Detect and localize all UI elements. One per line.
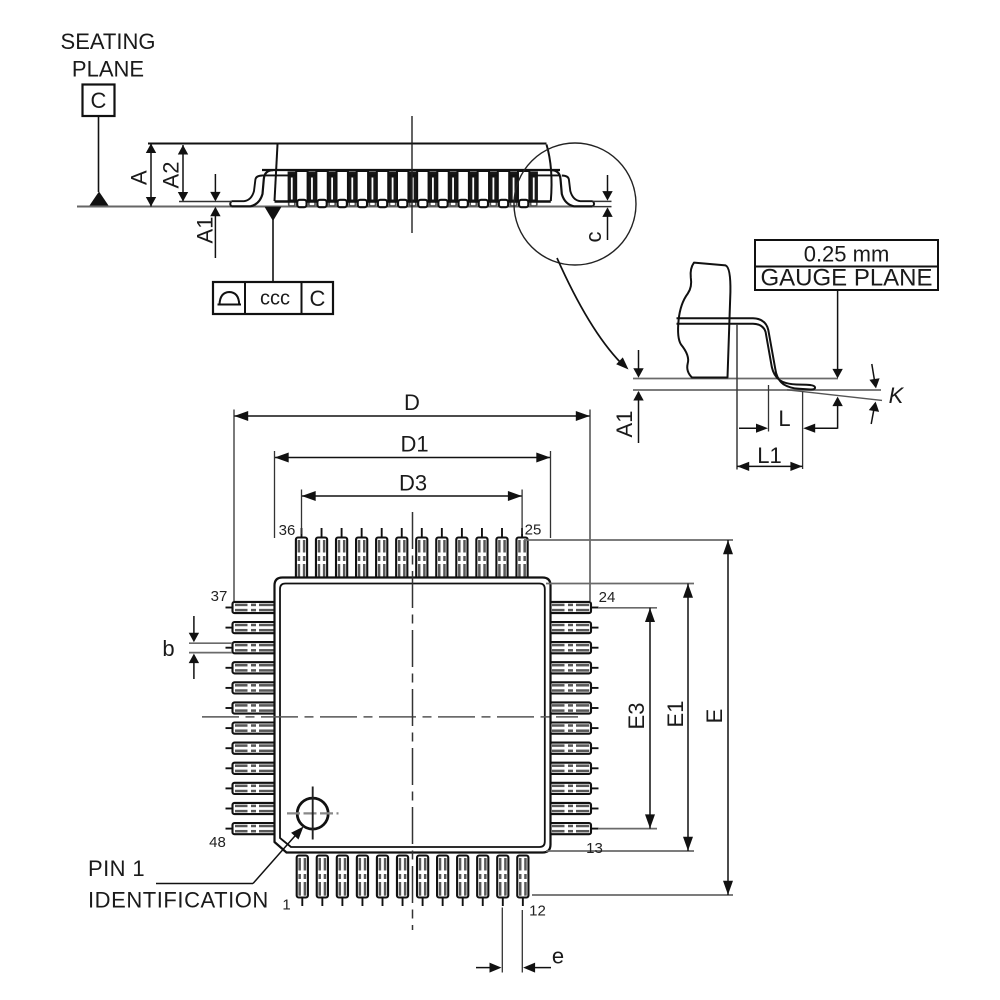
svg-text:24: 24	[599, 589, 616, 606]
svg-text:A2: A2	[159, 162, 184, 189]
svg-text:D1: D1	[400, 432, 428, 457]
svg-text:ccc: ccc	[260, 288, 290, 310]
svg-text:K: K	[889, 383, 905, 408]
svg-text:PIN 1: PIN 1	[88, 856, 145, 881]
svg-text:e: e	[552, 944, 564, 969]
svg-text:L1: L1	[757, 443, 781, 468]
svg-text:A1: A1	[612, 411, 637, 438]
svg-text:IDENTIFICATION: IDENTIFICATION	[88, 888, 269, 913]
svg-text:36: 36	[279, 522, 296, 539]
svg-text:PLANE: PLANE	[72, 57, 144, 82]
svg-text:12: 12	[529, 903, 546, 920]
svg-text:0.25 mm: 0.25 mm	[804, 242, 890, 267]
svg-text:C: C	[91, 88, 107, 113]
svg-text:C: C	[310, 286, 326, 311]
svg-text:b: b	[162, 636, 174, 661]
svg-text:37: 37	[211, 588, 228, 605]
svg-text:E: E	[702, 709, 727, 724]
svg-text:GAUGE PLANE: GAUGE PLANE	[760, 265, 932, 292]
svg-text:SEATING: SEATING	[61, 29, 156, 54]
svg-text:E1: E1	[663, 701, 688, 728]
svg-text:L: L	[778, 406, 790, 431]
svg-text:D: D	[404, 390, 420, 415]
svg-text:25: 25	[525, 522, 542, 539]
svg-text:13: 13	[586, 840, 603, 857]
svg-text:48: 48	[209, 834, 226, 851]
svg-text:A: A	[127, 170, 152, 185]
svg-text:1: 1	[282, 897, 290, 914]
svg-text:E3: E3	[624, 703, 649, 730]
svg-text:c: c	[581, 232, 606, 243]
svg-text:A1: A1	[193, 217, 218, 244]
svg-text:D3: D3	[399, 471, 427, 496]
